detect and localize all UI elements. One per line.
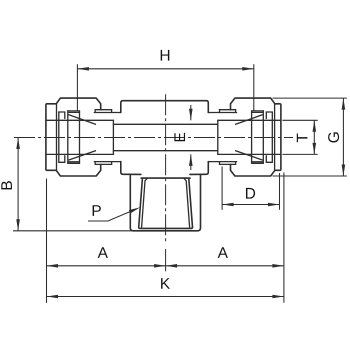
body outline bottom with port boss <box>121 162 141 175</box>
dimension B <box>1 138 20 231</box>
body thread band bottom left <box>94 162 121 165</box>
body thread band top left <box>94 110 121 113</box>
wire vertical centerline of bottom port <box>165 94 167 243</box>
dimension T <box>282 120 317 154</box>
dimension E <box>174 105 192 170</box>
dimension D <box>222 167 279 210</box>
bore shoulder left <box>112 120 114 154</box>
wire centerline extension to A dimension <box>165 249 167 271</box>
wire horizontal centerline <box>14 137 293 139</box>
body outline top <box>121 101 209 113</box>
nut right silhouette <box>231 98 281 176</box>
bore shoulder right <box>217 120 219 154</box>
dimension H <box>77 50 253 112</box>
body thread band top right <box>208 110 236 113</box>
dimension K <box>47 278 284 298</box>
dimension A left <box>47 179 166 303</box>
thread stub of bottom port <box>139 178 193 228</box>
tube hole lines left <box>46 119 114 121</box>
label P with leader <box>88 205 140 221</box>
dimension A right <box>166 173 284 303</box>
nut left silhouette <box>46 98 101 176</box>
wire B bottom extension (boss bottom extended) <box>13 230 133 232</box>
body thread band bottom right <box>208 162 236 165</box>
ferrule set inside left nut <box>59 111 96 164</box>
ferrule set inside right nut <box>236 111 273 164</box>
counterbore lines center <box>113 123 217 125</box>
tube hole lines right <box>218 119 281 121</box>
dimension G <box>273 98 347 176</box>
